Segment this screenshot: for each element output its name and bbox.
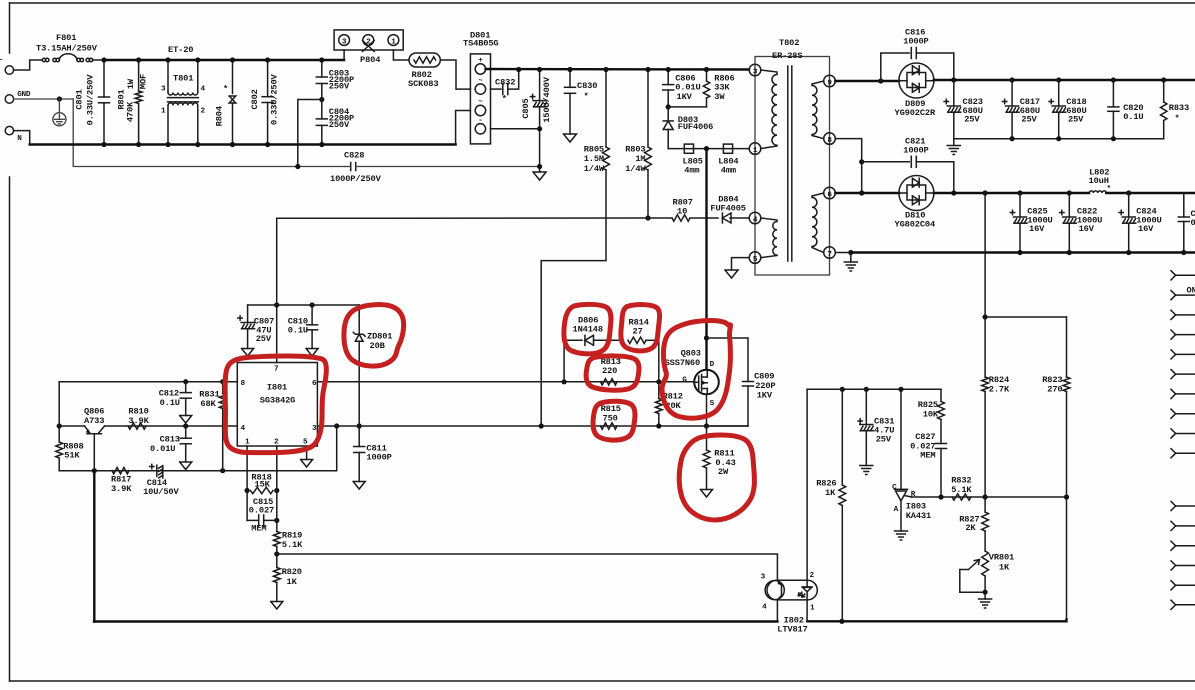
red annotation D806 [564,304,611,353]
capacitor C810 [311,305,313,325]
svg-text:9: 9 [827,79,832,87]
svg-text:C802: C802 [250,89,260,109]
capacitor C803 [321,60,323,77]
resistor R808 [56,442,63,458]
dual diode D810 [899,176,934,211]
svg-text:R833: R833 [1169,103,1189,113]
wire snubber branch [563,340,565,382]
connector pin [1171,330,1176,335]
capacitor C801 [103,60,105,97]
red annotation Q803 [662,321,731,419]
svg-text:10: 10 [677,207,687,217]
wire Y-cap midpoint to earth row [298,100,322,167]
choke T801 [167,60,169,93]
capacitor C809 [707,338,749,382]
resistor R818 [251,487,274,493]
ground [306,349,318,357]
wire [1106,192,1195,194]
IC I801 SG3842G [237,363,317,447]
svg-text:1M: 1M [635,154,645,164]
wire 25V rail [934,79,1195,81]
wire ground row [59,470,337,472]
wire pin7 vcc [276,218,278,362]
svg-text:R819: R819 [282,531,302,541]
svg-text:220: 220 [602,366,617,376]
svg-text:1: 1 [161,108,166,116]
svg-text:F801: F801 [56,33,76,43]
capacitor C818 [1058,80,1060,106]
svg-text:T3.15AH/250V: T3.15AH/250V [36,44,98,54]
svg-text:YG902C2R: YG902C2R [895,108,936,118]
connector pin [1171,561,1176,566]
T802 pin 4 [749,212,761,224]
primary winding 4-5 [761,218,777,258]
diode D806 [564,339,582,341]
wire reg rail [807,388,941,390]
svg-text:4mm: 4mm [721,165,736,175]
wire [668,148,749,150]
wire opto pin4 [776,600,778,622]
connector pin [1171,501,1176,506]
ground [725,270,738,278]
svg-text:Q803: Q803 [681,348,701,358]
ground [242,349,254,357]
svg-text:N: N [17,135,22,143]
zener ZD801 [358,305,360,334]
resistor R807 [672,215,690,221]
svg-text:1.5M: 1.5M [584,154,604,164]
svg-text:1K: 1K [287,577,298,587]
capacitor C815 [246,491,248,521]
ground [895,530,908,532]
optocoupler I802 [767,580,817,600]
svg-text:R826: R826 [816,479,836,489]
connector pin [1171,310,1176,315]
connector pin [1171,521,1176,526]
red annotation I801 [225,356,326,453]
wire pin8 [835,139,861,193]
svg-text:20B: 20B [370,341,386,351]
wire vcc rail [248,304,360,306]
capacitor C831 [865,389,867,424]
transformer core [787,66,789,261]
ground [564,134,577,142]
resistor R824 [984,317,986,377]
resistor R801 [138,60,140,91]
resistor R831 [222,382,224,394]
connector pin [1171,541,1176,546]
node drain branch [704,146,709,151]
connector pin [1171,389,1176,394]
svg-text:ER-28S: ER-28S [772,51,802,61]
svg-text:~: ~ [478,99,483,107]
svg-text:1: 1 [810,605,815,613]
svg-text:1KV: 1KV [677,92,693,102]
svg-text:A733: A733 [84,416,104,426]
ground [860,465,873,467]
svg-text:*: * [502,94,507,104]
svg-text:2: 2 [201,108,206,116]
svg-text:270: 270 [1047,384,1062,394]
svg-text:SCK083: SCK083 [408,79,438,89]
border frame [10,2,1195,4]
red annotation R811 [679,435,754,520]
wire pin9 row [835,80,899,82]
wire opto pin1 [806,592,808,622]
svg-text:4: 4 [201,85,206,93]
wire pin7 [835,252,851,254]
capacitor C827 [936,443,947,445]
resistor R802 [409,53,440,67]
connector GND [5,95,13,103]
capacitor C813 [185,426,187,438]
capacitor C806 [667,70,669,85]
diode D803 [667,107,669,120]
svg-text:25V: 25V [876,434,892,444]
T802 pin 9 [824,75,836,87]
capacitor C807 electrolytic [247,305,249,323]
svg-text:3.9K: 3.9K [128,416,149,426]
svg-text:1KV: 1KV [757,390,773,400]
wire DC+ rail [486,68,749,71]
resistor R805 [605,70,607,148]
svg-text:6: 6 [827,191,832,199]
svg-text:TS4B05G: TS4B05G [463,38,498,48]
svg-text:25V: 25V [1068,114,1084,124]
svg-text:25V: 25V [964,114,980,124]
svg-text:+: + [478,57,483,65]
svg-text:68K: 68K [200,399,216,409]
wire [440,60,470,89]
svg-text:0.01U: 0.01U [150,444,175,454]
svg-text:I801: I801 [267,383,287,393]
T802 pin 6 [824,187,836,199]
resistor R825 [940,389,942,401]
svg-text:250V: 250V [329,120,350,130]
ground [180,462,192,470]
resistor R803 [647,70,649,148]
svg-text:16V: 16V [1029,224,1045,234]
resistor R833 [1163,80,1165,102]
opto LED [802,586,812,588]
svg-text:7: 7 [827,251,832,259]
wire earth row [73,99,345,167]
wire opto pin3 [277,554,778,580]
svg-text:3: 3 [161,85,166,93]
primary winding 3-1 [761,70,777,149]
svg-text:~: ~ [478,77,483,85]
svg-text:ON: ON [1187,286,1195,296]
svg-text:C: C [892,484,897,492]
svg-text:0.33U/250V: 0.33U/250V [269,73,279,125]
wire primary bottom rail [94,620,777,622]
secondary winding 9-8 [812,81,824,139]
capacitor C828 [350,163,352,171]
svg-text:3.9K: 3.9K [111,484,132,494]
T802 pin 1 [749,143,761,155]
capacitor C825 [1019,193,1021,217]
wire pin1 [246,446,248,491]
svg-text:KA431: KA431 [906,511,931,521]
ground [984,592,986,599]
svg-text:C828: C828 [344,151,364,161]
capacitor C826 clipped [1183,193,1185,217]
wire [985,316,1066,318]
resistor R820 [276,554,278,568]
ground [301,460,313,468]
resistor R823 [1066,317,1068,377]
resistor R827 [984,497,986,512]
resistor R812 [658,382,660,399]
svg-text:A: A [894,506,899,514]
svg-text:3: 3 [753,68,758,76]
connector pin [1171,581,1176,586]
svg-text:GND: GND [17,91,31,99]
red annotation R815 [593,401,635,440]
wire [456,111,471,145]
wire [668,106,706,108]
wire ref row [912,496,1067,498]
connector pin [1171,350,1176,355]
svg-text:SG3842G: SG3842G [260,396,295,406]
svg-text:D: D [710,361,715,369]
svg-text:8: 8 [827,137,832,145]
svg-text:*: * [223,84,228,94]
wire aux row [277,217,672,219]
resistor R826 [841,389,843,485]
connector pin [1171,600,1176,605]
wire [658,340,660,382]
diode D804 [721,213,723,223]
svg-text:1000P: 1000P [903,145,928,155]
potentiometer VR801 [982,551,989,576]
wire [58,382,60,426]
svg-text:C805: C805 [521,98,531,118]
svg-text:-: - [478,117,482,125]
resistor R811 [706,426,708,450]
svg-text:1N4148: 1N4148 [573,325,603,335]
resistor R814 [628,337,646,343]
svg-text:SSS7N60: SSS7N60 [665,358,700,368]
wire pin3 row [317,425,748,427]
connector P804 [334,30,403,50]
svg-text:T802: T802 [779,38,799,48]
wire top AC rail [104,59,344,61]
shunt reg I803 KA431 [900,389,902,489]
wire 25V return rail [954,138,1164,140]
connector N [5,126,13,134]
svg-text:C830: C830 [577,81,597,91]
X mark on pin 2 [363,41,375,52]
svg-text:15K: 15K [255,479,271,489]
svg-text:3: 3 [342,38,347,46]
svg-text:R832: R832 [951,476,971,486]
svg-text:6: 6 [312,380,317,388]
ground [353,482,365,490]
svg-text:4: 4 [753,216,758,224]
svg-text:YG802C04: YG802C04 [895,220,936,230]
svg-text:*: * [1175,114,1180,124]
wire pin2 [276,446,278,532]
svg-text:51K: 51K [64,451,80,461]
red annotation ZD801 [344,305,404,367]
ground [271,602,283,610]
wire secondary ground rail [851,251,1195,253]
svg-text:S: S [710,400,715,408]
svg-text:27: 27 [633,327,643,337]
T801 core [168,97,199,99]
transformer T802 box [755,57,830,276]
svg-text:FUF4005: FUF4005 [710,203,745,213]
wire pin6 row [835,192,899,194]
connector L [5,66,13,74]
svg-text:750: 750 [603,414,618,424]
svg-text:0.1U: 0.1U [1123,112,1143,122]
T802 pin 5 [749,252,761,264]
resistor R832 [952,494,971,500]
T802 pin 3 [749,64,761,76]
svg-text:4: 4 [762,604,767,612]
capacitor C802 [267,60,269,97]
wire bridge minus [491,128,540,130]
wire bottom secondary rail [807,619,1066,621]
resistor R815 [601,423,618,429]
wire [14,131,30,145]
svg-text:1/4W: 1/4W [584,164,605,174]
svg-text:1K: 1K [999,562,1010,572]
connector pin [1171,449,1176,454]
ground [701,490,713,498]
svg-text:T801: T801 [173,74,193,84]
svg-text:1: 1 [753,147,758,155]
capacitor C832 [491,88,502,90]
ground [180,416,192,424]
svg-text:10K: 10K [923,409,939,419]
resistor R810 [128,423,146,429]
svg-text:1K: 1K [825,488,836,498]
connector pin [1171,290,1176,295]
svg-text:C801: C801 [75,89,85,109]
wire feedback drop [984,193,986,317]
svg-text:2K: 2K [965,523,976,533]
capacitor C820 [1112,80,1114,107]
svg-text:2.7K: 2.7K [989,384,1010,394]
wire opto pin2 [806,580,808,587]
svg-text:5.1K: 5.1K [282,540,303,550]
svg-text:MEM: MEM [920,451,935,461]
bridge rectifier D801 [470,54,490,144]
ground [533,172,546,180]
capacitor C824 [1128,193,1130,217]
inductor L802 [1089,191,1106,193]
svg-text:MEM: MEM [251,524,266,534]
svg-text:0.027: 0.027 [249,505,274,515]
svg-text:7: 7 [274,365,279,373]
svg-text:1000P: 1000P [366,452,391,462]
dual diode D809 [899,63,934,98]
red annotation R814 [621,305,660,351]
svg-text:0.33U/250V: 0.33U/250V [86,74,96,126]
MOSFET Q803 [705,149,707,370]
resistor R806 [706,70,708,82]
svg-text:8: 8 [241,380,246,388]
svg-text:250V: 250V [329,82,350,92]
svg-text:1000P/250V: 1000P/250V [330,174,382,184]
wire pin4 row [105,425,238,427]
resistor R817 [112,468,129,474]
svg-text:10uH: 10uH [1089,176,1109,186]
svg-text:0.1U: 0.1U [160,398,180,408]
svg-text:VR801: VR801 [989,553,1014,563]
bead L804 [723,144,732,153]
capacitor C805 electrolytic [539,70,541,101]
wire [343,50,345,60]
svg-text:R804: R804 [215,106,225,126]
wire riser [336,426,338,471]
capacitor C821 [862,161,910,163]
svg-text:16V: 16V [1138,224,1154,234]
svg-text:25V: 25V [256,334,272,344]
resistor R813 [601,379,618,385]
svg-text:1: 1 [391,38,396,46]
capacitor C823 [953,80,955,106]
svg-text:L: L [0,53,3,63]
wire pin6 gate row [317,381,694,383]
svg-text:2: 2 [810,572,815,580]
svg-text:1W: 1W [126,78,136,89]
svg-text:1/4W: 1/4W [625,164,646,174]
svg-text:0.1U: 0.1U [288,325,308,335]
connector pin [1171,370,1176,375]
bead L805 [684,144,693,153]
earth chassis symbol [58,99,60,113]
connector pin [1171,409,1176,414]
capacitor C812 [185,382,187,393]
svg-text:5: 5 [753,256,758,264]
secondary winding 6-7 [812,193,824,253]
red annotation R813 [586,356,639,390]
capacitor C814 electrolytic [150,466,154,468]
svg-text:P804: P804 [360,55,380,65]
capacitor C804 [319,97,324,102]
svg-text:R820: R820 [282,567,302,577]
ground [850,253,852,263]
capacitor C811 [358,426,360,447]
svg-text:150U/400V: 150U/400V [542,76,552,123]
varistor R804 [232,60,234,94]
svg-text:10U/50V: 10U/50V [143,487,179,497]
svg-text:LTV817: LTV817 [777,625,807,635]
svg-text:4mm: 4mm [684,165,699,175]
wire [393,50,409,60]
capacitor C817 [1011,80,1013,106]
svg-text:*: * [584,92,589,102]
svg-text:MOF: MOF [138,74,148,89]
svg-text:G: G [682,376,687,384]
wire [14,60,42,70]
svg-text:3: 3 [761,574,766,582]
svg-text:5.1K: 5.1K [951,485,972,495]
transistor Q806 [87,433,102,435]
wire opto pin2 drop [806,389,808,580]
svg-text:2W: 2W [718,467,729,477]
resistor R819 [273,532,280,547]
fuse F801 [42,58,45,61]
svg-text:16V: 16V [1079,224,1095,234]
capacitor C830 [569,70,571,88]
connector pin [1171,429,1176,434]
svg-text:FUF4006: FUF4006 [678,122,713,132]
